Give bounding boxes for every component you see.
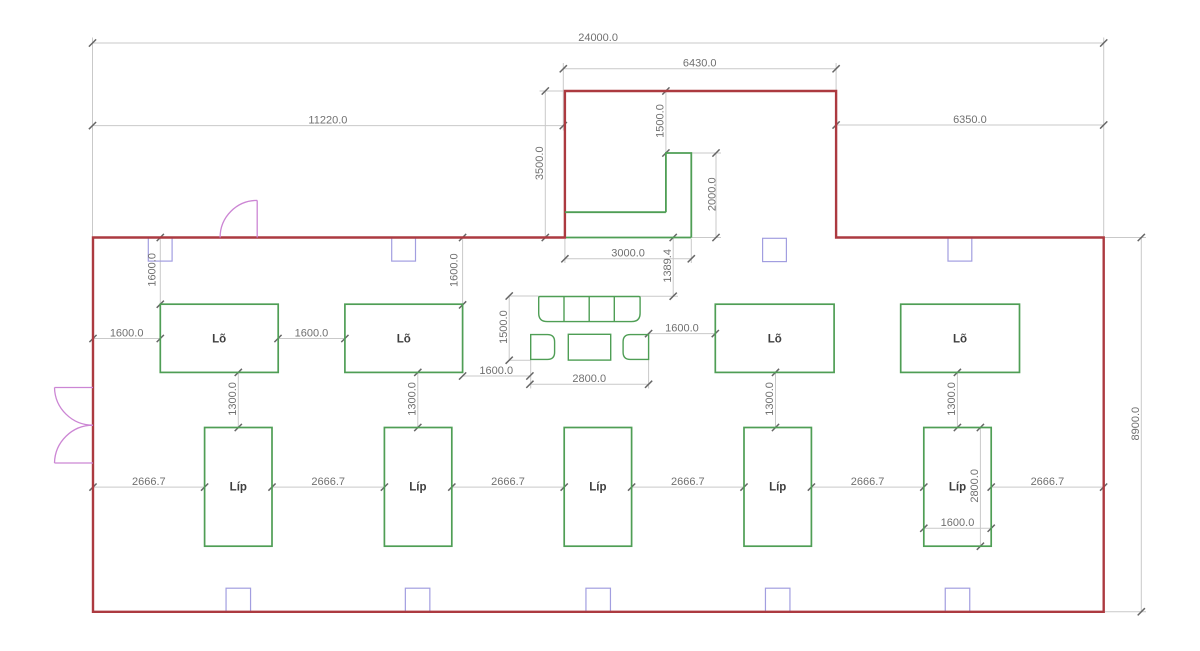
svg-text:1600.0: 1600.0 xyxy=(110,327,144,339)
svg-text:1600.0: 1600.0 xyxy=(449,253,461,287)
svg-text:Líp: Líp xyxy=(949,482,966,494)
svg-text:2666.7: 2666.7 xyxy=(851,476,885,488)
svg-text:1389.4: 1389.4 xyxy=(662,249,674,283)
svg-text:1600.0: 1600.0 xyxy=(146,253,158,287)
svg-text:Líp: Líp xyxy=(230,482,247,494)
svg-text:1300.0: 1300.0 xyxy=(946,382,958,416)
svg-text:2800.0: 2800.0 xyxy=(969,469,981,503)
svg-text:2666.7: 2666.7 xyxy=(491,476,525,488)
svg-text:8900.0: 8900.0 xyxy=(1130,407,1142,441)
svg-text:Lõ: Lõ xyxy=(953,334,967,346)
svg-text:24000.0: 24000.0 xyxy=(578,32,618,44)
svg-text:1300.0: 1300.0 xyxy=(764,382,776,416)
svg-text:1500.0: 1500.0 xyxy=(655,104,667,138)
svg-text:2666.7: 2666.7 xyxy=(132,476,166,488)
svg-text:1600.0: 1600.0 xyxy=(479,365,513,377)
svg-text:2666.7: 2666.7 xyxy=(671,476,705,488)
svg-text:3500.0: 3500.0 xyxy=(534,146,546,180)
svg-text:2666.7: 2666.7 xyxy=(311,476,345,488)
svg-text:2666.7: 2666.7 xyxy=(1031,476,1065,488)
svg-text:Lõ: Lõ xyxy=(212,334,226,346)
svg-text:1500.0: 1500.0 xyxy=(498,310,510,344)
svg-text:2800.0: 2800.0 xyxy=(572,373,606,385)
svg-text:3000.0: 3000.0 xyxy=(611,248,645,260)
svg-text:1300.0: 1300.0 xyxy=(227,382,239,416)
svg-text:Lõ: Lõ xyxy=(768,334,782,346)
svg-text:6350.0: 6350.0 xyxy=(953,114,987,126)
svg-text:6430.0: 6430.0 xyxy=(683,58,717,70)
svg-text:1600.0: 1600.0 xyxy=(665,322,699,334)
svg-text:11220.0: 11220.0 xyxy=(308,114,347,126)
svg-text:2000.0: 2000.0 xyxy=(706,177,718,211)
svg-text:1300.0: 1300.0 xyxy=(406,382,418,416)
svg-text:Líp: Líp xyxy=(589,482,606,494)
svg-text:1600.0: 1600.0 xyxy=(295,327,329,339)
svg-text:Lõ: Lõ xyxy=(397,334,411,346)
svg-text:1600.0: 1600.0 xyxy=(941,517,975,529)
svg-text:Líp: Líp xyxy=(409,482,426,494)
svg-text:Líp: Líp xyxy=(769,482,786,494)
